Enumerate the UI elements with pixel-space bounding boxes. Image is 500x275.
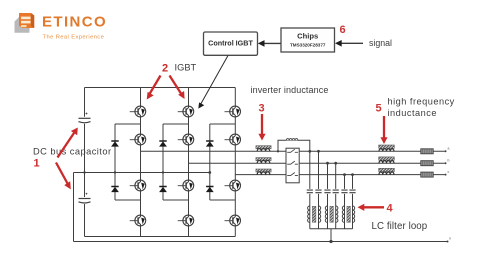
arrow signal to chips bbox=[335, 40, 363, 47]
wire neutral rail to clamp diodes bbox=[74, 172, 210, 174]
svg-text:5: 5 bbox=[376, 103, 382, 115]
node neutral LC junction bbox=[329, 240, 332, 243]
arrow 4 to LC filter bbox=[358, 204, 385, 211]
node terminal b bbox=[445, 158, 450, 164]
arrow control box to IGBT gate bbox=[198, 56, 228, 109]
wire clamp bottom leg2 bbox=[163, 199, 189, 201]
svg-text:LC filter loop: LC filter loop bbox=[372, 221, 428, 232]
svg-text:high frequency: high frequency bbox=[388, 97, 455, 107]
inductor L6 high frequency phase B bbox=[379, 157, 395, 163]
wire leg 2 vertical bbox=[188, 88, 190, 237]
wire clamp diode column 1 bbox=[114, 124, 116, 200]
node clamp mid leg2 bbox=[162, 171, 164, 173]
box Chips TMS3320F28377 bbox=[281, 28, 335, 52]
wire bypass branch over contactor bbox=[278, 140, 310, 151]
svg-text:2: 2 bbox=[162, 63, 168, 75]
wire LC bottom bus bbox=[310, 228, 353, 230]
wire DC+ top bus bbox=[85, 87, 236, 89]
svg-text:c: c bbox=[448, 170, 450, 174]
node clamp mid leg3 bbox=[208, 171, 211, 174]
svg-text:DC bus capacitor: DC bus capacitor bbox=[33, 147, 112, 157]
inductor L4 bypass coil bbox=[286, 139, 298, 141]
inductor L1 inverter phase A bbox=[256, 146, 271, 152]
svg-text:The Real Experience: The Real Experience bbox=[43, 35, 105, 41]
wire clamp top leg3 bbox=[210, 123, 236, 125]
svg-text:Control IGBT: Control IGBT bbox=[208, 38, 253, 47]
IGBT Q11 leg3 row3 bbox=[225, 180, 241, 191]
IGBT Q7 leg2 row3 bbox=[178, 180, 194, 191]
capacitor C3 LC filter A1 bbox=[307, 190, 313, 193]
wire DC- bottom bus bbox=[85, 236, 236, 238]
fuse F1 phase A bbox=[421, 149, 433, 154]
IGBT Q12 leg3 row4 bbox=[225, 215, 241, 226]
svg-text:inductance: inductance bbox=[388, 108, 437, 118]
svg-text:ETINCO: ETINCO bbox=[42, 14, 107, 31]
IGBT Q6 leg2 row2 bbox=[178, 134, 194, 145]
wire neutral to LC star point bbox=[330, 229, 332, 242]
node LC B2 tap bbox=[334, 162, 337, 165]
arrow chips to control box bbox=[258, 40, 281, 47]
svg-text:IGBT: IGBT bbox=[175, 63, 197, 73]
svg-text:6: 6 bbox=[340, 24, 346, 36]
svg-text:3: 3 bbox=[259, 103, 265, 115]
wire clamp bottom leg3 bbox=[210, 199, 236, 201]
svg-text:TMS3320F28377: TMS3320F28377 bbox=[290, 43, 326, 48]
capacitor C4 LC filter A2 bbox=[315, 190, 321, 193]
node LC A2 tap bbox=[317, 150, 320, 153]
IGBT Q4 leg1 row4 bbox=[130, 215, 146, 226]
node bypass right bbox=[308, 150, 311, 153]
arrow 5 to L5 bbox=[380, 116, 387, 144]
node bypass left bbox=[277, 150, 279, 152]
inductor L2 inverter phase B bbox=[256, 158, 271, 164]
logo ETINCO icon bbox=[15, 13, 35, 33]
node LC C1 tap bbox=[343, 173, 346, 176]
arrow 1 to C2 bbox=[56, 163, 71, 190]
IGBT Q5 leg2 row1 bbox=[178, 106, 194, 117]
svg-text:1: 1 bbox=[34, 158, 40, 170]
wire LC drop A2 bbox=[318, 151, 320, 229]
inductor L5 high frequency phase A bbox=[379, 145, 395, 151]
wire LC drop B2 bbox=[335, 163, 337, 229]
node LC B1 tap bbox=[326, 162, 329, 165]
node clamp mid leg1 bbox=[114, 171, 116, 173]
IGBT Q1 leg1 row1 bbox=[130, 106, 146, 117]
diode D3 clamp upper leg2 bbox=[159, 141, 167, 147]
wire leg 3 vertical bbox=[234, 88, 236, 237]
capacitor C7 LC filter C1 bbox=[341, 190, 347, 193]
inductor L8 LC filter phase A bbox=[308, 206, 321, 222]
capacitor C6 LC filter B2 bbox=[333, 190, 339, 193]
inductor L7 high frequency phase C bbox=[379, 168, 395, 174]
svg-text:4: 4 bbox=[387, 203, 394, 215]
wire clamp diode column 2 bbox=[162, 124, 164, 200]
wire leg 1 vertical bbox=[140, 88, 142, 237]
IGBT Q10 leg3 row2 bbox=[225, 134, 241, 145]
svg-text:signal: signal bbox=[369, 38, 392, 48]
wire phase A line bbox=[141, 150, 445, 152]
svg-text:b: b bbox=[448, 158, 450, 162]
wire DC bus capacitor branch bbox=[84, 88, 86, 237]
svg-text:a: a bbox=[448, 147, 450, 151]
arrow 1 to C1 bbox=[58, 128, 78, 158]
diode D1 clamp upper leg1 bbox=[111, 141, 119, 147]
arrow 2 to Q5 bbox=[170, 76, 185, 100]
inductor L3 inverter phase C bbox=[256, 169, 271, 175]
arrow 2 to Q1 bbox=[147, 76, 161, 100]
wire clamp top leg1 bbox=[115, 123, 141, 125]
node terminal n bbox=[447, 237, 452, 243]
node LC C2 tap bbox=[351, 173, 354, 176]
node capacitor midpoint bbox=[83, 171, 85, 173]
wire LC drop A1 bbox=[309, 151, 311, 229]
node terminal c bbox=[445, 170, 450, 176]
inductor L9 LC filter phase B bbox=[325, 206, 338, 222]
svg-text:inverter inductance: inverter inductance bbox=[251, 85, 329, 95]
svg-text:n: n bbox=[449, 237, 451, 241]
wire neutral bottom rail bbox=[74, 241, 448, 243]
IGBT Q8 leg2 row4 bbox=[178, 215, 194, 226]
box Control IGBT bbox=[204, 32, 258, 55]
capacitor C1 DC bus upper bbox=[79, 113, 91, 123]
wire LC drop C2 bbox=[352, 175, 354, 229]
capacitor C2 DC bus lower bbox=[79, 193, 91, 203]
wire LC drop C1 bbox=[344, 175, 346, 229]
inductor L10 LC filter phase C bbox=[342, 206, 354, 222]
svg-text:Chips: Chips bbox=[297, 32, 318, 41]
wire neutral left edge bbox=[73, 173, 75, 242]
wire clamp diode column 3 bbox=[209, 124, 211, 200]
node terminal a bbox=[445, 147, 450, 153]
wire clamp top leg2 bbox=[163, 123, 189, 125]
arrow 3 to L1 bbox=[258, 114, 265, 141]
IGBT Q2 leg1 row2 bbox=[130, 134, 146, 145]
fuse F2 phase B bbox=[421, 161, 433, 166]
wire phase B line bbox=[189, 162, 445, 164]
wire phase C line bbox=[235, 174, 444, 176]
wire LC drop B1 bbox=[327, 163, 329, 229]
fuse F3 phase C bbox=[421, 172, 433, 177]
IGBT Q9 leg3 row1 bbox=[225, 106, 241, 117]
capacitor C8 LC filter C2 bbox=[349, 190, 355, 193]
diode D2 clamp lower leg1 bbox=[111, 187, 119, 193]
IGBT Q3 leg1 row3 bbox=[130, 180, 146, 191]
diode D5 clamp upper leg3 bbox=[206, 141, 214, 147]
contactor K1 three pole box bbox=[286, 148, 299, 183]
wire clamp bottom leg1 bbox=[115, 199, 141, 201]
capacitor C5 LC filter B1 bbox=[324, 190, 330, 193]
diode D4 clamp lower leg2 bbox=[159, 187, 167, 193]
diode D6 clamp lower leg3 bbox=[206, 187, 214, 193]
